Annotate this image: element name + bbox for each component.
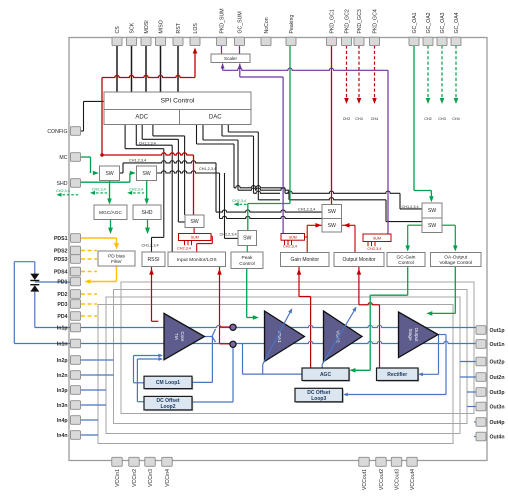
svg-text:VCCin3: VCCin3	[148, 469, 154, 487]
svg-text:GC_OA2: GC_OA2	[426, 12, 432, 33]
svg-text:GC-Gain: GC-Gain	[397, 254, 416, 260]
svg-text:CH2,3,4: CH2,3,4	[177, 246, 191, 250]
svg-text:In1n: In1n	[57, 342, 68, 348]
svg-text:Out2n: Out2n	[490, 375, 505, 381]
svg-text:VCCin1: VCCin1	[115, 469, 121, 487]
svg-text:PDS3: PDS3	[54, 257, 68, 263]
svg-text:SW: SW	[328, 209, 336, 215]
svg-text:SUM: SUM	[373, 236, 381, 240]
svg-text:SHD: SHD	[142, 210, 153, 216]
svg-text:In4n: In4n	[57, 433, 68, 439]
svg-text:PKD_GC4: PKD_GC4	[373, 9, 379, 33]
svg-text:In3n: In3n	[57, 403, 68, 409]
svg-text:Control: Control	[398, 260, 413, 266]
svg-text:PD4: PD4	[57, 314, 67, 320]
svg-text:CH2,3,4: CH2,3,4	[283, 245, 297, 249]
svg-text:ADC: ADC	[135, 115, 148, 121]
svg-text:In2p: In2p	[57, 358, 68, 364]
svg-text:PKD_GC3: PKD_GC3	[357, 9, 363, 33]
svg-text:VCCout4: VCCout4	[410, 469, 416, 490]
svg-text:GC_SUM: GC_SUM	[238, 11, 244, 33]
svg-text:Input Monitor/LOS: Input Monitor/LOS	[177, 257, 217, 263]
svg-text:PD3: PD3	[57, 302, 67, 308]
svg-text:CH4: CH4	[371, 117, 379, 121]
svg-text:TIA: TIA	[174, 333, 179, 341]
svg-text:Rectifier: Rectifier	[387, 372, 407, 378]
svg-text:Loop3: Loop3	[311, 396, 326, 402]
svg-text:SHD: SHD	[57, 181, 68, 187]
svg-text:LOS: LOS	[193, 23, 199, 34]
svg-text:CH2,3,4: CH2,3,4	[129, 187, 143, 191]
svg-text:Output: Output	[414, 328, 419, 343]
svg-text:CH1,2,3,4: CH1,2,3,4	[220, 233, 237, 237]
svg-text:CH2,3,4: CH2,3,4	[56, 189, 70, 193]
svg-text:PKD_SUM: PKD_SUM	[220, 8, 226, 33]
svg-text:Out3p: Out3p	[490, 390, 505, 396]
svg-text:Output Monitor: Output Monitor	[342, 257, 375, 263]
svg-text:DAC: DAC	[209, 115, 222, 121]
svg-text:AGC: AGC	[320, 372, 332, 378]
svg-text:Voltage Control: Voltage Control	[439, 260, 472, 266]
svg-text:CH1,2,3,4: CH1,2,3,4	[199, 167, 216, 171]
svg-text:MISO: MISO	[159, 20, 165, 33]
svg-text:OA-Output: OA-Output	[444, 254, 468, 260]
svg-text:MOSI: MOSI	[144, 20, 150, 33]
svg-text:CH1,2,3,4: CH1,2,3,4	[142, 244, 159, 248]
svg-text:SW: SW	[105, 171, 113, 177]
svg-text:CH1,2,3,4: CH1,2,3,4	[129, 159, 146, 163]
svg-text:PD2: PD2	[57, 292, 67, 298]
svg-text:SUM: SUM	[289, 235, 297, 239]
svg-text:CONFIG: CONFIG	[47, 129, 67, 135]
svg-text:SW: SW	[428, 223, 436, 229]
svg-text:SPI Control: SPI Control	[161, 97, 195, 104]
svg-text:CH4: CH4	[452, 117, 460, 121]
svg-text:GC_OA3: GC_OA3	[440, 12, 446, 33]
svg-text:Out4p: Out4p	[490, 420, 505, 426]
svg-text:SW: SW	[142, 171, 150, 177]
svg-text:SCK: SCK	[130, 22, 136, 33]
svg-text:PKD_GC2: PKD_GC2	[345, 9, 351, 33]
svg-text:Out3n: Out3n	[490, 405, 505, 411]
svg-text:CS: CS	[115, 26, 121, 34]
svg-text:PD1: PD1	[57, 280, 67, 286]
svg-text:Gain Monitor: Gain Monitor	[290, 257, 319, 263]
svg-text:RST: RST	[176, 22, 182, 33]
svg-text:Core: Core	[180, 332, 185, 342]
svg-text:VCCin4: VCCin4	[165, 469, 171, 487]
svg-text:CH1,2,3,4: CH1,2,3,4	[402, 205, 419, 209]
svg-text:MC: MC	[59, 155, 67, 161]
svg-text:CH2: CH2	[424, 117, 432, 121]
svg-text:In4p: In4p	[57, 418, 68, 424]
svg-text:Peaking: Peaking	[289, 15, 295, 34]
svg-text:VCCout3: VCCout3	[395, 469, 401, 490]
svg-text:SW: SW	[328, 223, 336, 229]
svg-text:VCCin2: VCCin2	[132, 469, 138, 487]
svg-text:In1p: In1p	[57, 326, 68, 332]
svg-text:Stage: Stage	[408, 328, 413, 340]
svg-text:CH2,3,4: CH2,3,4	[367, 247, 381, 251]
svg-text:SUM: SUM	[191, 236, 199, 240]
svg-text:RSSI: RSSI	[147, 257, 159, 263]
svg-text:PD bias: PD bias	[108, 253, 125, 259]
svg-text:CM Loop1: CM Loop1	[156, 380, 180, 386]
svg-text:Scaler: Scaler	[224, 56, 237, 61]
svg-text:VCCout2: VCCout2	[379, 469, 385, 490]
svg-text:PDS2: PDS2	[54, 249, 68, 255]
svg-text:CH3: CH3	[438, 117, 446, 121]
svg-text:Out2p: Out2p	[490, 360, 505, 366]
svg-text:CH2,3,4: CH2,3,4	[232, 199, 246, 203]
svg-text:SW: SW	[243, 236, 251, 242]
svg-text:PDS1: PDS1	[54, 236, 68, 242]
svg-text:GC_OA1: GC_OA1	[412, 12, 418, 33]
svg-text:SW: SW	[428, 208, 436, 214]
svg-text:In2n: In2n	[57, 373, 68, 379]
svg-text:SW: SW	[190, 219, 198, 225]
svg-text:NoCon: NoCon	[264, 17, 270, 33]
svg-text:Filter: Filter	[111, 259, 122, 265]
svg-text:CH3: CH3	[355, 117, 363, 121]
svg-text:CH2: CH2	[343, 117, 351, 121]
svg-text:Out4n: Out4n	[490, 435, 505, 441]
svg-text:In3p: In3p	[57, 388, 68, 394]
svg-text:Loop2: Loop2	[161, 404, 176, 410]
svg-text:PKD_GC1: PKD_GC1	[330, 9, 336, 33]
svg-text:Out1p: Out1p	[490, 328, 505, 334]
svg-text:Out1n: Out1n	[490, 342, 505, 348]
svg-text:Control: Control	[239, 261, 254, 267]
svg-text:Peak: Peak	[242, 255, 254, 261]
svg-text:PDS4: PDS4	[54, 270, 68, 276]
svg-text:CH2,3,4: CH2,3,4	[92, 187, 106, 191]
svg-text:CH1,2,3,4: CH1,2,3,4	[298, 208, 315, 212]
svg-text:CH1,2,3,4: CH1,2,3,4	[139, 142, 156, 146]
svg-text:GC_OA4: GC_OA4	[454, 12, 460, 33]
svg-text:VCCout1: VCCout1	[362, 469, 368, 490]
svg-text:MGC/AGC: MGC/AGC	[99, 210, 122, 216]
